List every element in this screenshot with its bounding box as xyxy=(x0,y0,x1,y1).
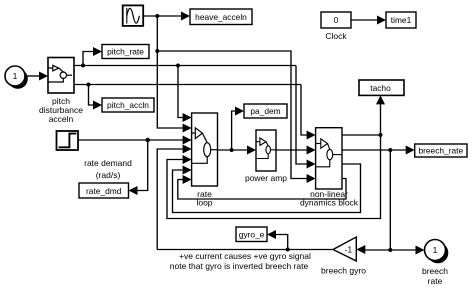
subsystem non-linear dynamics block xyxy=(300,128,359,208)
node junction on pitch accln line at x=88.5 xyxy=(87,83,91,87)
To Workspace pa_dem xyxy=(244,104,287,118)
wire gyro output line y=249.5 going left xyxy=(157,249,333,251)
wire branch down to pitch_accln xyxy=(89,85,103,110)
svg-text:breech_rate: breech_rate xyxy=(418,146,463,156)
node junction at (380.5,135) xyxy=(379,133,383,137)
wire sine vertical to rate loop input a2 xyxy=(157,51,191,133)
svg-text:pitch_rate: pitch_rate xyxy=(107,47,144,57)
wire right to outport breech rate xyxy=(390,246,424,255)
To Workspace breech_rate xyxy=(415,144,467,157)
svg-text:acceln: acceln xyxy=(49,114,74,124)
svg-text:power amp: power amp xyxy=(245,173,287,183)
node junction on breech rate line at x=390.3 xyxy=(388,148,392,152)
inport In1 circle "1" xyxy=(5,66,28,89)
annotation text note xyxy=(170,251,311,271)
wire pitch disturbance out2 (pitch accln line y=84.5) xyxy=(74,84,301,86)
svg-text:Clock: Clock xyxy=(325,31,347,41)
To Workspace gyro_e xyxy=(236,227,267,242)
svg-text:(rad/s): (rad/s) xyxy=(96,170,121,180)
svg-text:pitch_accln: pitch_accln xyxy=(107,100,149,110)
wire rate demand to rate loop input a3 xyxy=(78,136,192,145)
node junction at (390.3,250) xyxy=(388,248,392,252)
svg-text:rate_dmd: rate_dmd xyxy=(86,186,122,196)
subsystem pitch disturbance acceln xyxy=(39,58,83,125)
wire pitch accln line drop to non-linear input 1 xyxy=(301,85,316,140)
wire feedback L3 from (380.5,135) down and around to rate loop input a5 xyxy=(167,135,381,219)
subsystem power amp xyxy=(245,130,287,183)
wire left to breech gyro input xyxy=(356,245,390,254)
wire In1 to pitch disturbance xyxy=(25,72,48,81)
svg-text:0: 0 xyxy=(334,15,339,25)
To Workspace tacho xyxy=(359,80,404,95)
node junction on gyro line at x=287.7 xyxy=(286,248,290,252)
source rate demand square wave xyxy=(57,131,133,180)
wire sine branch right at y=51 to non-linear input 4 xyxy=(157,51,315,183)
svg-text:note that gyro is inverted bre: note that gyro is inverted breech rate xyxy=(170,261,309,271)
wire Sine Wave to heave_acceln xyxy=(143,12,190,21)
svg-text:+ve current causes +ve gyro si: +ve current causes +ve gyro signal xyxy=(179,251,311,261)
To Workspace pitch_accln xyxy=(102,98,154,112)
svg-text:breech: breech xyxy=(422,266,448,276)
wire branch up to pa_dem xyxy=(232,107,244,151)
wire pitch disturbance out1 (pitch rate line y=65.5) xyxy=(74,65,296,67)
node junction on sine line at x=157.3 xyxy=(155,14,159,18)
wire up to tacho xyxy=(376,95,385,135)
svg-text:tacho: tacho xyxy=(370,83,391,93)
wire pitch rate line drop to non-linear input 3 xyxy=(296,66,316,169)
svg-text:gyro_e: gyro_e xyxy=(239,230,265,240)
wire power amp output to non-linear input 2 xyxy=(276,146,316,155)
svg-text:breech gyro: breech gyro xyxy=(321,266,366,276)
node junction on pitch rate line at x=178 xyxy=(176,64,180,68)
svg-text:time1: time1 xyxy=(391,15,412,25)
wire gyro line up at x=157.2 to rate loop input a4 xyxy=(157,145,191,250)
wire branch up to pitch_rate xyxy=(83,47,102,66)
wire branch down to rate loop input a1 xyxy=(178,66,192,123)
wire breech rate drop x=390.3 down to gyro line xyxy=(389,150,391,250)
wire non-linear out4 (y=178.5) feedback L1 to rate loop input a7 xyxy=(178,175,346,199)
svg-text:pa_dem: pa_dem xyxy=(250,106,280,116)
gain breech gyro (-1) xyxy=(321,237,366,276)
outport circle "1" breech rate xyxy=(422,240,448,287)
wire Clock to time1 xyxy=(351,16,386,25)
wire non-linear out2 (y=150) to breech_rate xyxy=(342,146,415,155)
svg-text:1: 1 xyxy=(13,71,18,81)
wire non-linear out3 (y=164) feedback L2 to rate loop input a6 xyxy=(173,164,361,213)
node junction on sine vertical at y=51 xyxy=(155,49,159,53)
wire rate loop output to power amp xyxy=(218,146,257,155)
To Workspace pitch_rate xyxy=(102,45,149,59)
source Sine Wave xyxy=(123,5,144,26)
constant Clock "0" xyxy=(321,12,351,41)
svg-text:-1: -1 xyxy=(345,245,353,255)
svg-text:1: 1 xyxy=(433,245,438,255)
node junction on rate loop output at x=231.6 xyxy=(230,148,234,152)
svg-text:rate demand: rate demand xyxy=(84,158,132,168)
svg-text:heave_acceln: heave_acceln xyxy=(195,12,247,22)
svg-text:rate: rate xyxy=(428,276,443,286)
node junction on rate demand line at x=147.7 xyxy=(146,138,150,142)
subsystem rate loop xyxy=(192,113,218,208)
To Workspace heave_acceln xyxy=(190,9,252,25)
wire non-linear out1 (y=135) to tacho junction xyxy=(342,134,381,136)
wire branch down-left to rate_dmd xyxy=(129,140,148,195)
To Workspace time1 xyxy=(386,12,416,28)
wire branch up-left to gyro_e xyxy=(267,230,288,250)
wire sine vertical drop x=157.3 xyxy=(156,16,158,51)
To Workspace rate_dmd xyxy=(79,183,129,198)
node junction on pitch rate line at x=83 xyxy=(81,64,85,68)
